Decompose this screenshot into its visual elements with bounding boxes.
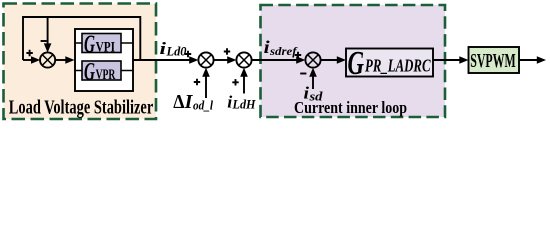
svg-text:G: G [84,31,95,58]
svg-text:Ld0: Ld0 [166,45,188,59]
svg-text:SVPWM: SVPWM [470,50,516,72]
svg-text:i: i [160,39,167,58]
svg-text:G: G [84,59,95,86]
svg-text:G: G [348,45,365,82]
svg-text:VPR: VPR [96,67,116,83]
svg-text:od_l: od_l [193,98,213,113]
svg-text:sd: sd [308,90,323,104]
svg-text:i: i [304,84,310,103]
svg-text:LdH: LdH [232,98,257,112]
svg-text:sdref: sdref [269,44,298,58]
svg-text:VPI: VPI [96,40,116,56]
svg-text:PR_LADRC: PR_LADRC [364,56,431,76]
svg-text:Δ: Δ [173,92,184,113]
svg-text:Load Voltage Stabilizer: Load Voltage Stabilizer [9,98,154,119]
svg-text:i: i [264,37,270,57]
